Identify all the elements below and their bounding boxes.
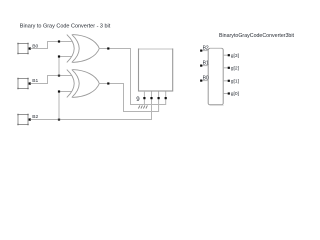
svg-text:9: 9 xyxy=(136,96,140,103)
pin g[1] xyxy=(223,80,229,82)
svg-text:g[1]: g[1] xyxy=(231,78,240,84)
wire B1 to XOR2 top input xyxy=(31,76,72,84)
pin g[3] xyxy=(223,54,229,56)
svg-text:g[0]: g[0] xyxy=(231,91,240,97)
wire B2 to display pin2 xyxy=(31,90,152,120)
wire XOR2 output to display pin3 xyxy=(99,84,158,112)
pin B2 xyxy=(201,50,208,52)
svg-text:B1: B1 xyxy=(203,60,209,66)
svg-text:Binary to Gray Code Converter: Binary to Gray Code Converter - 3 bit xyxy=(20,23,111,29)
input B0 xyxy=(17,43,38,54)
subcircuit block xyxy=(208,48,223,104)
wire B2 branch up to XOR2 bottom input xyxy=(59,92,72,120)
pin B0 xyxy=(201,80,208,82)
display block xyxy=(139,49,173,91)
wire B1 branch up to XOR1 bottom input xyxy=(59,57,72,76)
display pin1 wire to ground xyxy=(143,91,145,105)
svg-text:g[3]: g[3] xyxy=(231,53,240,59)
wire XOR1 output to display pin4 xyxy=(99,49,165,105)
node B2 branch xyxy=(58,118,60,120)
node XOR2 out xyxy=(107,82,109,84)
xor gate U2 xyxy=(67,70,100,98)
node B1-XOR1 xyxy=(58,55,60,57)
pin B1 xyxy=(201,65,208,67)
ground xyxy=(138,105,147,108)
xor gate U1 xyxy=(67,35,100,63)
node XOR1 out xyxy=(107,47,109,49)
display pin dots xyxy=(143,97,145,99)
svg-text:g[2]: g[2] xyxy=(231,65,240,71)
subcircuit shadow xyxy=(210,105,224,107)
node B2-XOR2 xyxy=(58,90,60,92)
display top edge highlight xyxy=(139,48,172,50)
input B2 xyxy=(17,114,38,125)
svg-text:B2: B2 xyxy=(203,45,209,51)
pin g[0] xyxy=(223,93,229,95)
pin g[2] xyxy=(223,67,229,69)
svg-text:BinarytoGrayCodeConverter3bit: BinarytoGrayCodeConverter3bit xyxy=(219,33,294,39)
wire B0 to XOR1 top input xyxy=(31,42,72,49)
node B1-XOR2 xyxy=(58,74,60,76)
svg-text:B0: B0 xyxy=(203,75,209,81)
node B0-XOR1 xyxy=(58,40,60,42)
subcircuit top highlight xyxy=(210,47,222,49)
input B1 xyxy=(17,78,38,89)
